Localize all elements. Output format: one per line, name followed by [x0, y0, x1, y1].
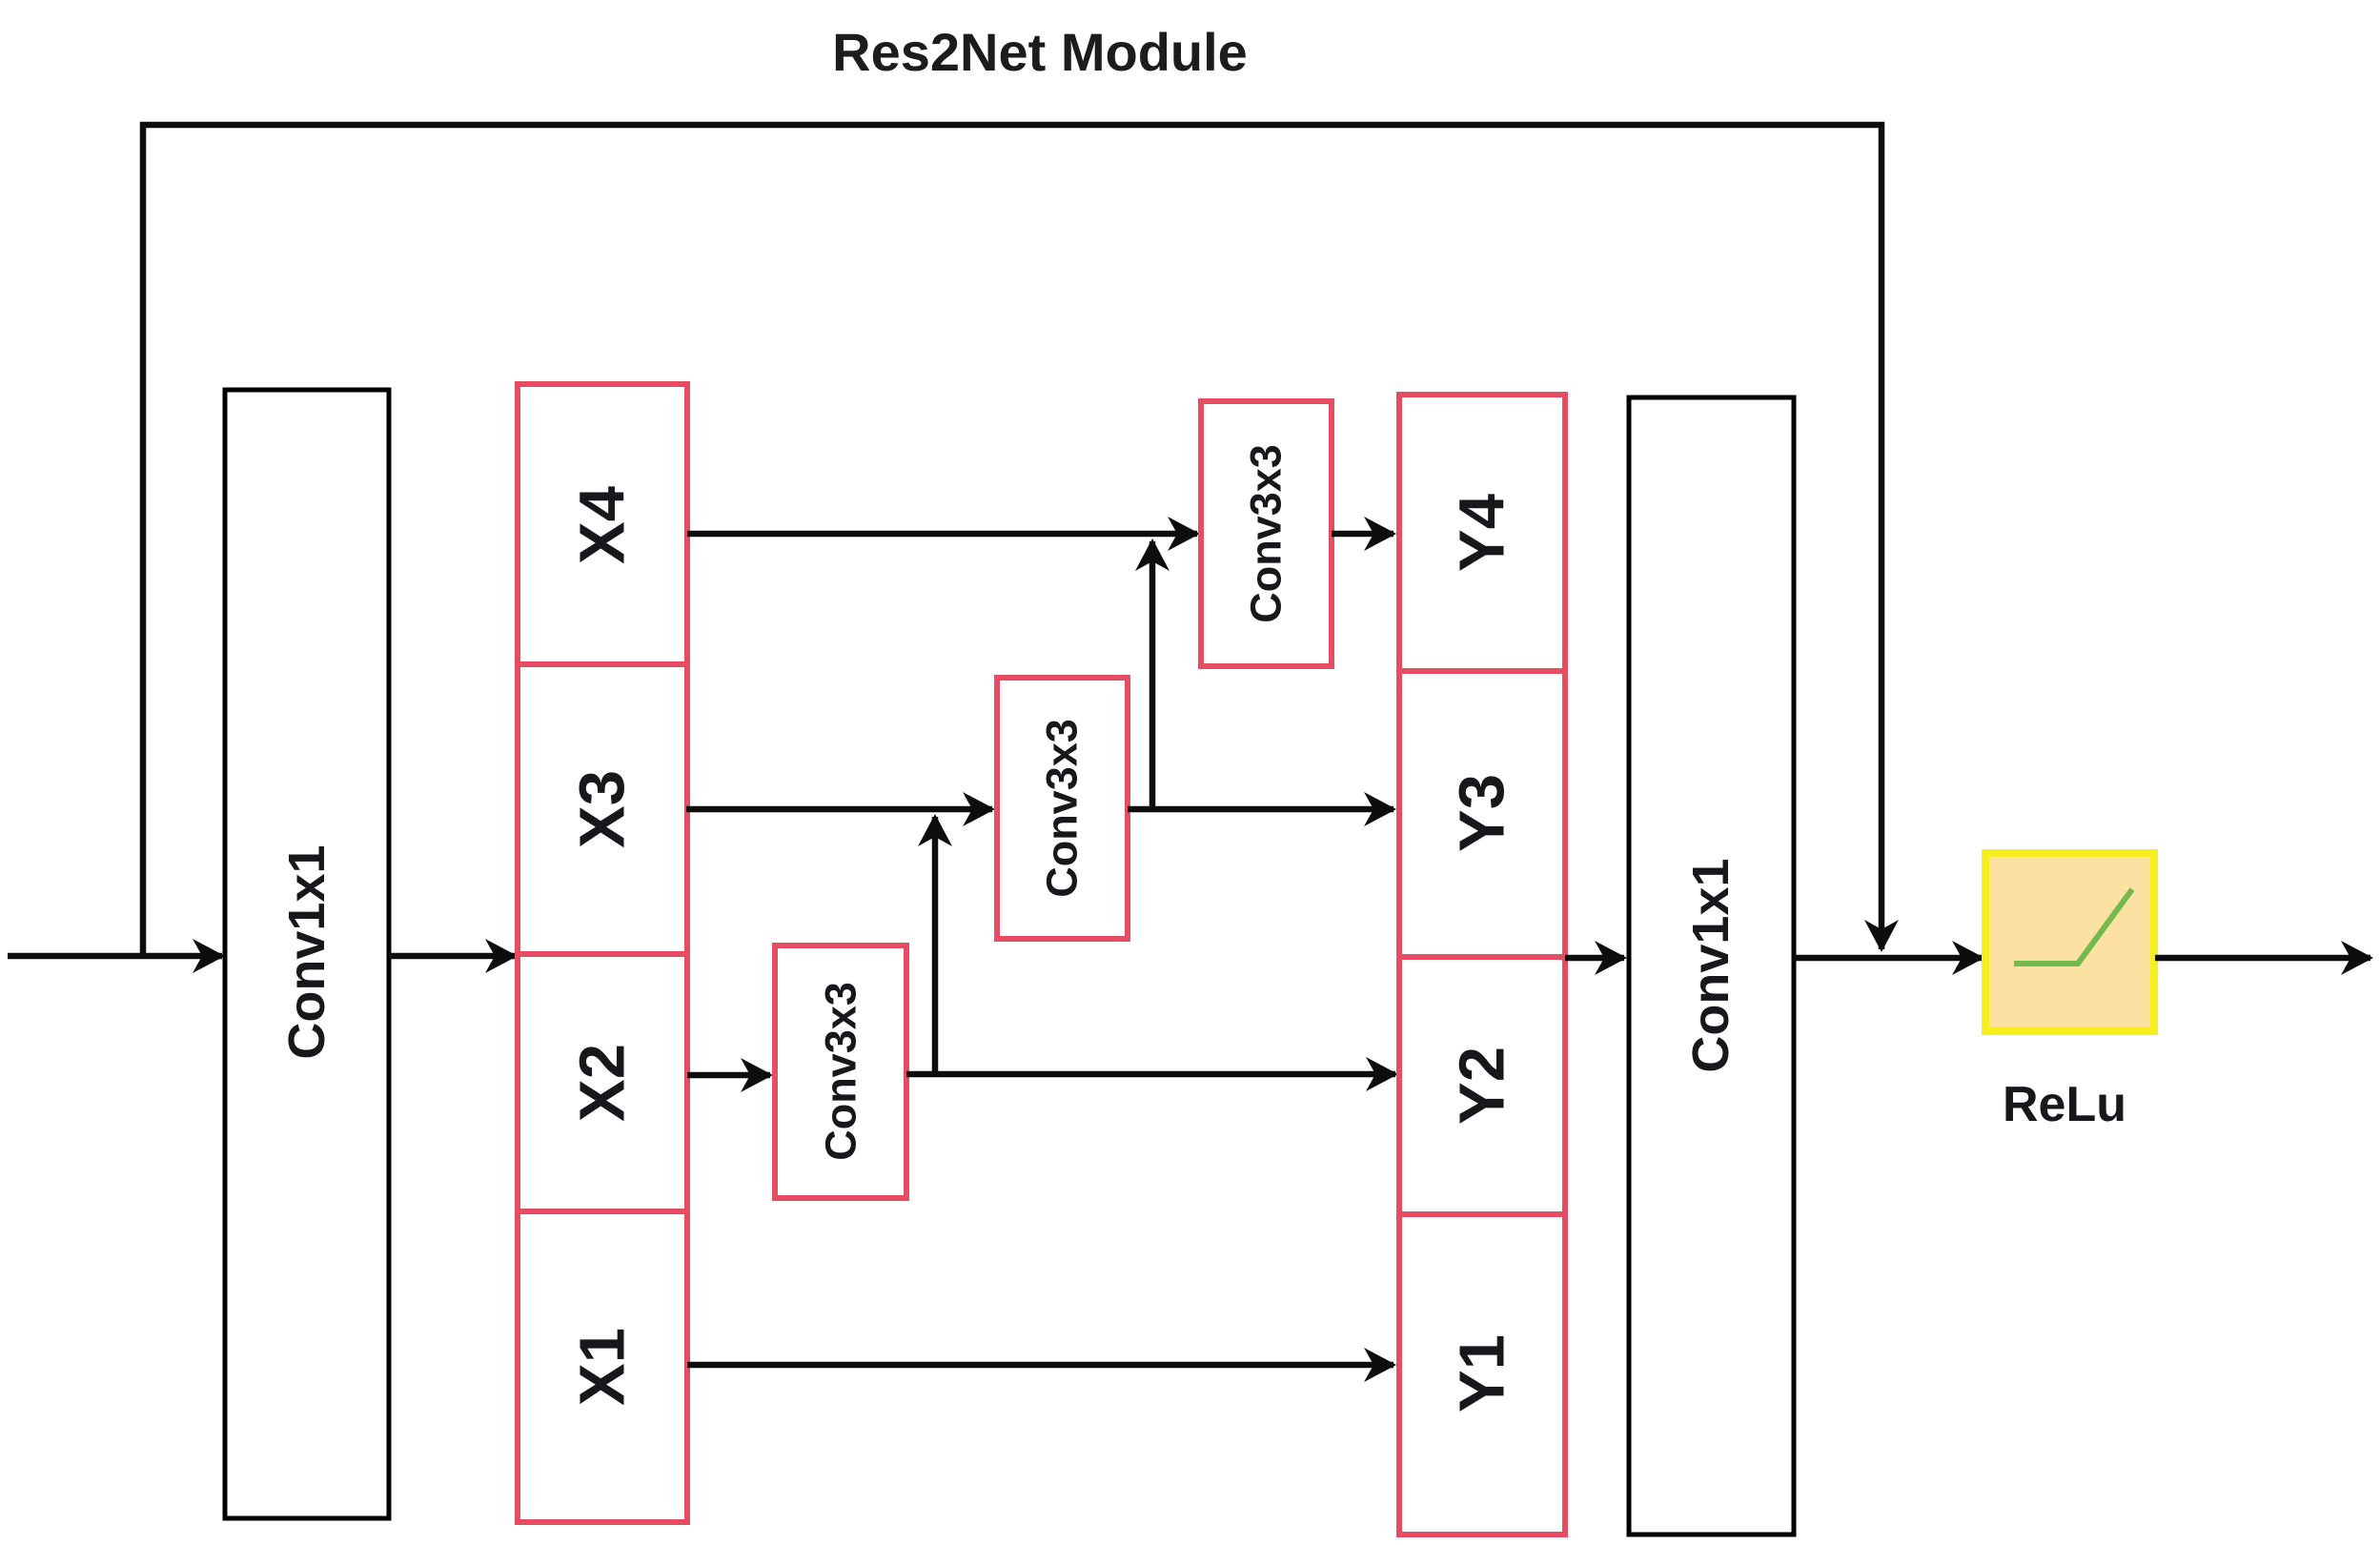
box Y4	[1399, 395, 1565, 671]
wire branch up from Conv3x3 mid output to X4 row	[1149, 541, 1156, 809]
box X4	[518, 384, 687, 664]
wire Conv3x3 top to Y4	[1332, 531, 1393, 538]
box Y3	[1399, 671, 1565, 957]
box Conv3x3 bottom	[775, 945, 906, 1198]
wire X4 to Conv3x3 top	[687, 531, 1197, 538]
box Conv3x3 mid	[997, 678, 1128, 939]
box Y1	[1399, 1214, 1565, 1535]
wire output arrow	[2155, 955, 2370, 962]
box Conv3x3 top	[1201, 401, 1332, 666]
wire X3 to Conv3x3 mid	[686, 806, 992, 813]
box ReLu activation	[1985, 853, 2154, 1031]
box X1	[518, 1211, 687, 1522]
svg-text:X4: X4	[567, 486, 639, 564]
wire branch up from Conv3x3 bottom output to X3 row	[932, 817, 939, 1074]
box X2	[518, 954, 687, 1211]
svg-text:Y1: Y1	[1447, 1334, 1518, 1413]
box X3	[518, 664, 687, 954]
svg-text:X3: X3	[567, 770, 639, 848]
svg-text:ReLu: ReLu	[2003, 1077, 2126, 1132]
wire Y column to Conv1x1 right	[1565, 955, 1624, 962]
box Conv1x1 right	[1629, 397, 1794, 1535]
wire Conv3x3 bottom output to Y2	[906, 1071, 1395, 1078]
box Conv1x1 left	[225, 390, 389, 1518]
svg-text:Conv1x1: Conv1x1	[1682, 858, 1739, 1072]
wire X1 to Y1	[687, 1362, 1393, 1369]
wire X2 to Conv3x3 bottom	[687, 1072, 770, 1079]
svg-text:Conv1x1: Conv1x1	[278, 844, 336, 1059]
svg-text:Y3: Y3	[1447, 774, 1518, 852]
svg-text:X2: X2	[567, 1044, 639, 1122]
svg-text:Y4: Y4	[1447, 494, 1518, 572]
svg-text:Y2: Y2	[1447, 1047, 1518, 1125]
wire Conv1x1 right to ReLu	[1793, 955, 1982, 962]
wire Conv3x3 mid output to Y3	[1128, 806, 1393, 813]
svg-text:Res2Net Module: Res2Net Module	[832, 22, 1248, 82]
wire input arrow	[8, 953, 222, 960]
wire Conv1x1-left to X column	[389, 953, 515, 960]
svg-text:Conv3x3: Conv3x3	[1242, 444, 1291, 623]
wire outer skip loop	[143, 125, 1882, 956]
svg-text:X1: X1	[567, 1328, 639, 1406]
svg-text:Conv3x3: Conv3x3	[817, 982, 865, 1161]
svg-text:Conv3x3: Conv3x3	[1038, 719, 1087, 898]
box Y2	[1399, 957, 1565, 1214]
